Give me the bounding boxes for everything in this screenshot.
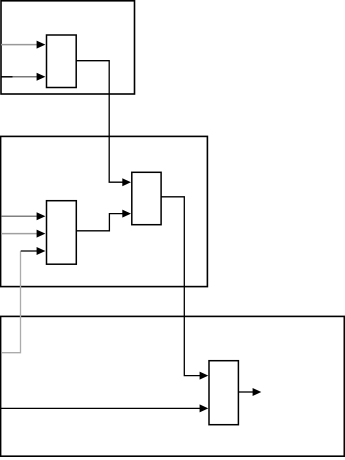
container subsystem MIDDLE xyxy=(1,136,208,286)
wire W2 into B1 input2 xyxy=(13,76,38,78)
arrowhead W1 xyxy=(37,41,46,49)
arrowhead W7 xyxy=(122,210,131,218)
container subsystem BOTTOM xyxy=(1,316,345,456)
wire W10 from B4 output xyxy=(238,391,253,393)
block B3 (middle container, left) xyxy=(47,201,77,265)
wire W3 from B1 output to B2 input1 xyxy=(76,61,123,183)
arrowhead W6 xyxy=(37,247,46,255)
wire W4 into B3 input1 xyxy=(1,215,37,217)
block B4 (bottom container) xyxy=(209,361,238,425)
wire W6 gray segment from bottom container edge up xyxy=(2,251,21,352)
block B1 (top container) xyxy=(47,35,77,88)
container subsystem TOP xyxy=(1,1,135,94)
arrowhead W5 xyxy=(37,230,46,238)
arrowhead W9 xyxy=(200,404,209,412)
arrowhead W3 xyxy=(122,178,131,186)
wire W6 black segment into B3 input3 xyxy=(21,250,38,252)
wire W1 into B1 input1 (gray shaft) xyxy=(1,44,37,46)
wire W5 into B3 input2 (gray shaft) xyxy=(1,233,37,235)
wire W7 from B3 output to B2 input2 xyxy=(76,214,123,231)
arrowhead W10 xyxy=(253,388,262,396)
wire W9 into B4 input2 xyxy=(1,407,201,409)
wire W8 from B2 output to B4 input1 xyxy=(161,197,200,376)
arrowhead W4 xyxy=(37,212,46,220)
block B2 (middle container, right) xyxy=(132,172,161,224)
arrowhead W2 xyxy=(37,73,46,81)
arrowhead W8 xyxy=(200,372,209,380)
